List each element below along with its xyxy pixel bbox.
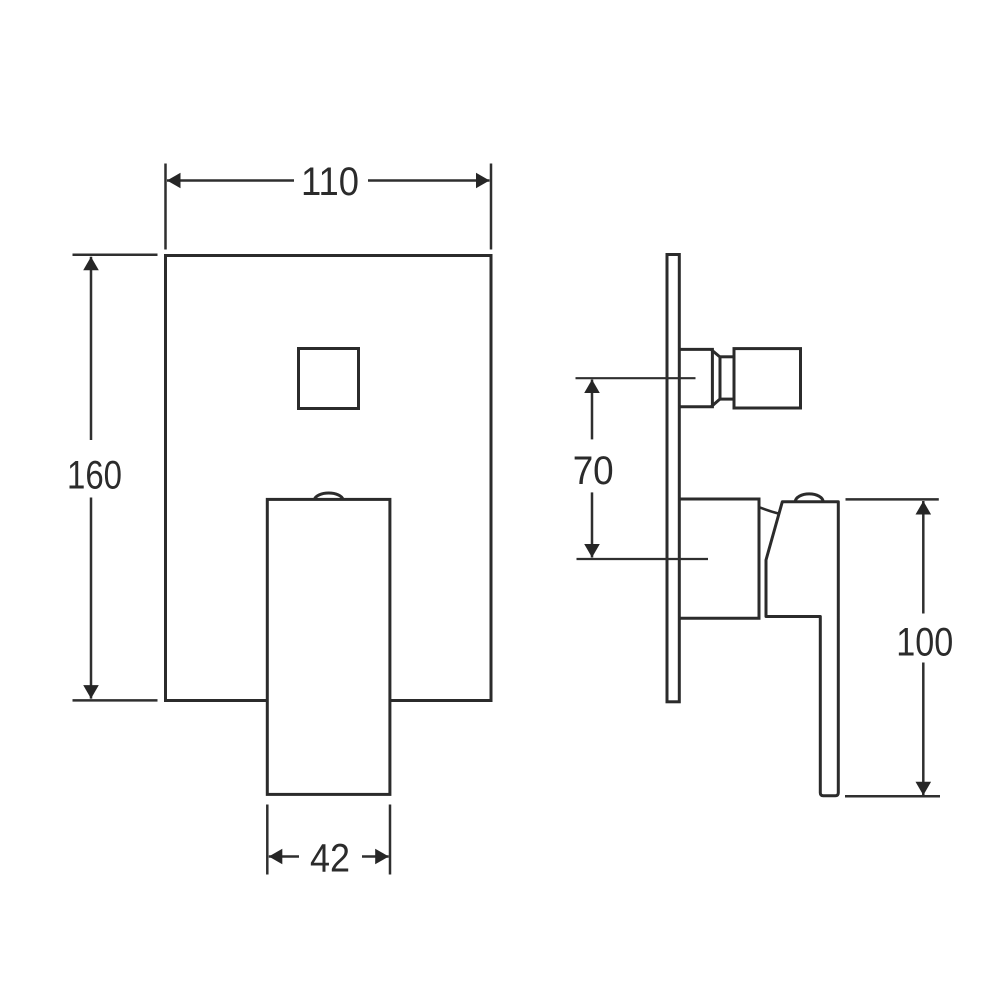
dim 110: left extension line bbox=[164, 164, 167, 250]
side view: cartridge end block bbox=[734, 349, 801, 408]
dim 42: left extension line bbox=[266, 805, 269, 875]
dim 70: top leader line bbox=[576, 377, 696, 379]
dim 100: top extension line bbox=[846, 498, 939, 501]
side view: cartridge taper bottom bbox=[712, 399, 720, 406]
svg-text:160: 160 bbox=[67, 453, 122, 497]
dim 70: top arrowhead bbox=[584, 380, 600, 394]
dim 100: bottom extension line bbox=[845, 795, 940, 798]
side view: connector curve bbox=[760, 507, 779, 513]
dim 160: top extension line bbox=[73, 253, 158, 256]
dim 70: bottom leader line bbox=[577, 558, 709, 560]
dim 42: label background bbox=[299, 839, 362, 874]
svg-text:100: 100 bbox=[896, 620, 953, 664]
dim 160: dimension line bbox=[90, 257, 93, 699]
dim 100: dimension line bbox=[922, 501, 925, 795]
dim 160: bottom extension line bbox=[73, 699, 158, 702]
dim 42: right arrowhead bbox=[375, 849, 389, 865]
svg-text:70: 70 bbox=[573, 449, 614, 493]
dim 70: label background bbox=[570, 439, 616, 492]
dim 110: right extension line bbox=[490, 164, 493, 250]
side view: handle body bbox=[680, 499, 759, 618]
side view: cartridge taper top bbox=[712, 351, 720, 357]
svg-text:110: 110 bbox=[301, 160, 359, 204]
dim 110: label background bbox=[294, 162, 368, 199]
dim 42: dimension line bbox=[269, 855, 389, 858]
dim 160: label background bbox=[64, 440, 125, 498]
side view: wall plate bbox=[667, 255, 679, 702]
dim 110: dimension line bbox=[167, 179, 490, 182]
front view: lever handle bbox=[267, 499, 390, 794]
front view: handle top clip arc bbox=[315, 493, 343, 499]
dim 160: bottom arrowhead bbox=[83, 685, 99, 699]
dim 70: bottom arrowhead bbox=[584, 544, 600, 558]
dim 110: right arrowhead bbox=[476, 173, 490, 189]
svg-text:42: 42 bbox=[310, 836, 350, 880]
side view: cartridge neck bbox=[720, 357, 734, 399]
side view: lever top clip arc bbox=[795, 494, 823, 502]
front view: diverter button square bbox=[299, 349, 359, 409]
dim 100: bottom arrowhead bbox=[916, 782, 932, 796]
dim 70: dimension line bbox=[591, 380, 594, 558]
dim 160: top arrowhead bbox=[83, 257, 99, 271]
side view: lever handle bbox=[766, 502, 838, 796]
dim 42: left arrowhead bbox=[269, 849, 283, 865]
dim 42: right extension line bbox=[389, 805, 392, 875]
dim 110: left arrowhead bbox=[167, 173, 181, 189]
dim 100: label background bbox=[893, 614, 957, 663]
front view: wall plate bbox=[166, 256, 492, 701]
dim 100: top arrowhead bbox=[916, 501, 932, 515]
side view: cartridge flange bbox=[680, 349, 712, 406]
